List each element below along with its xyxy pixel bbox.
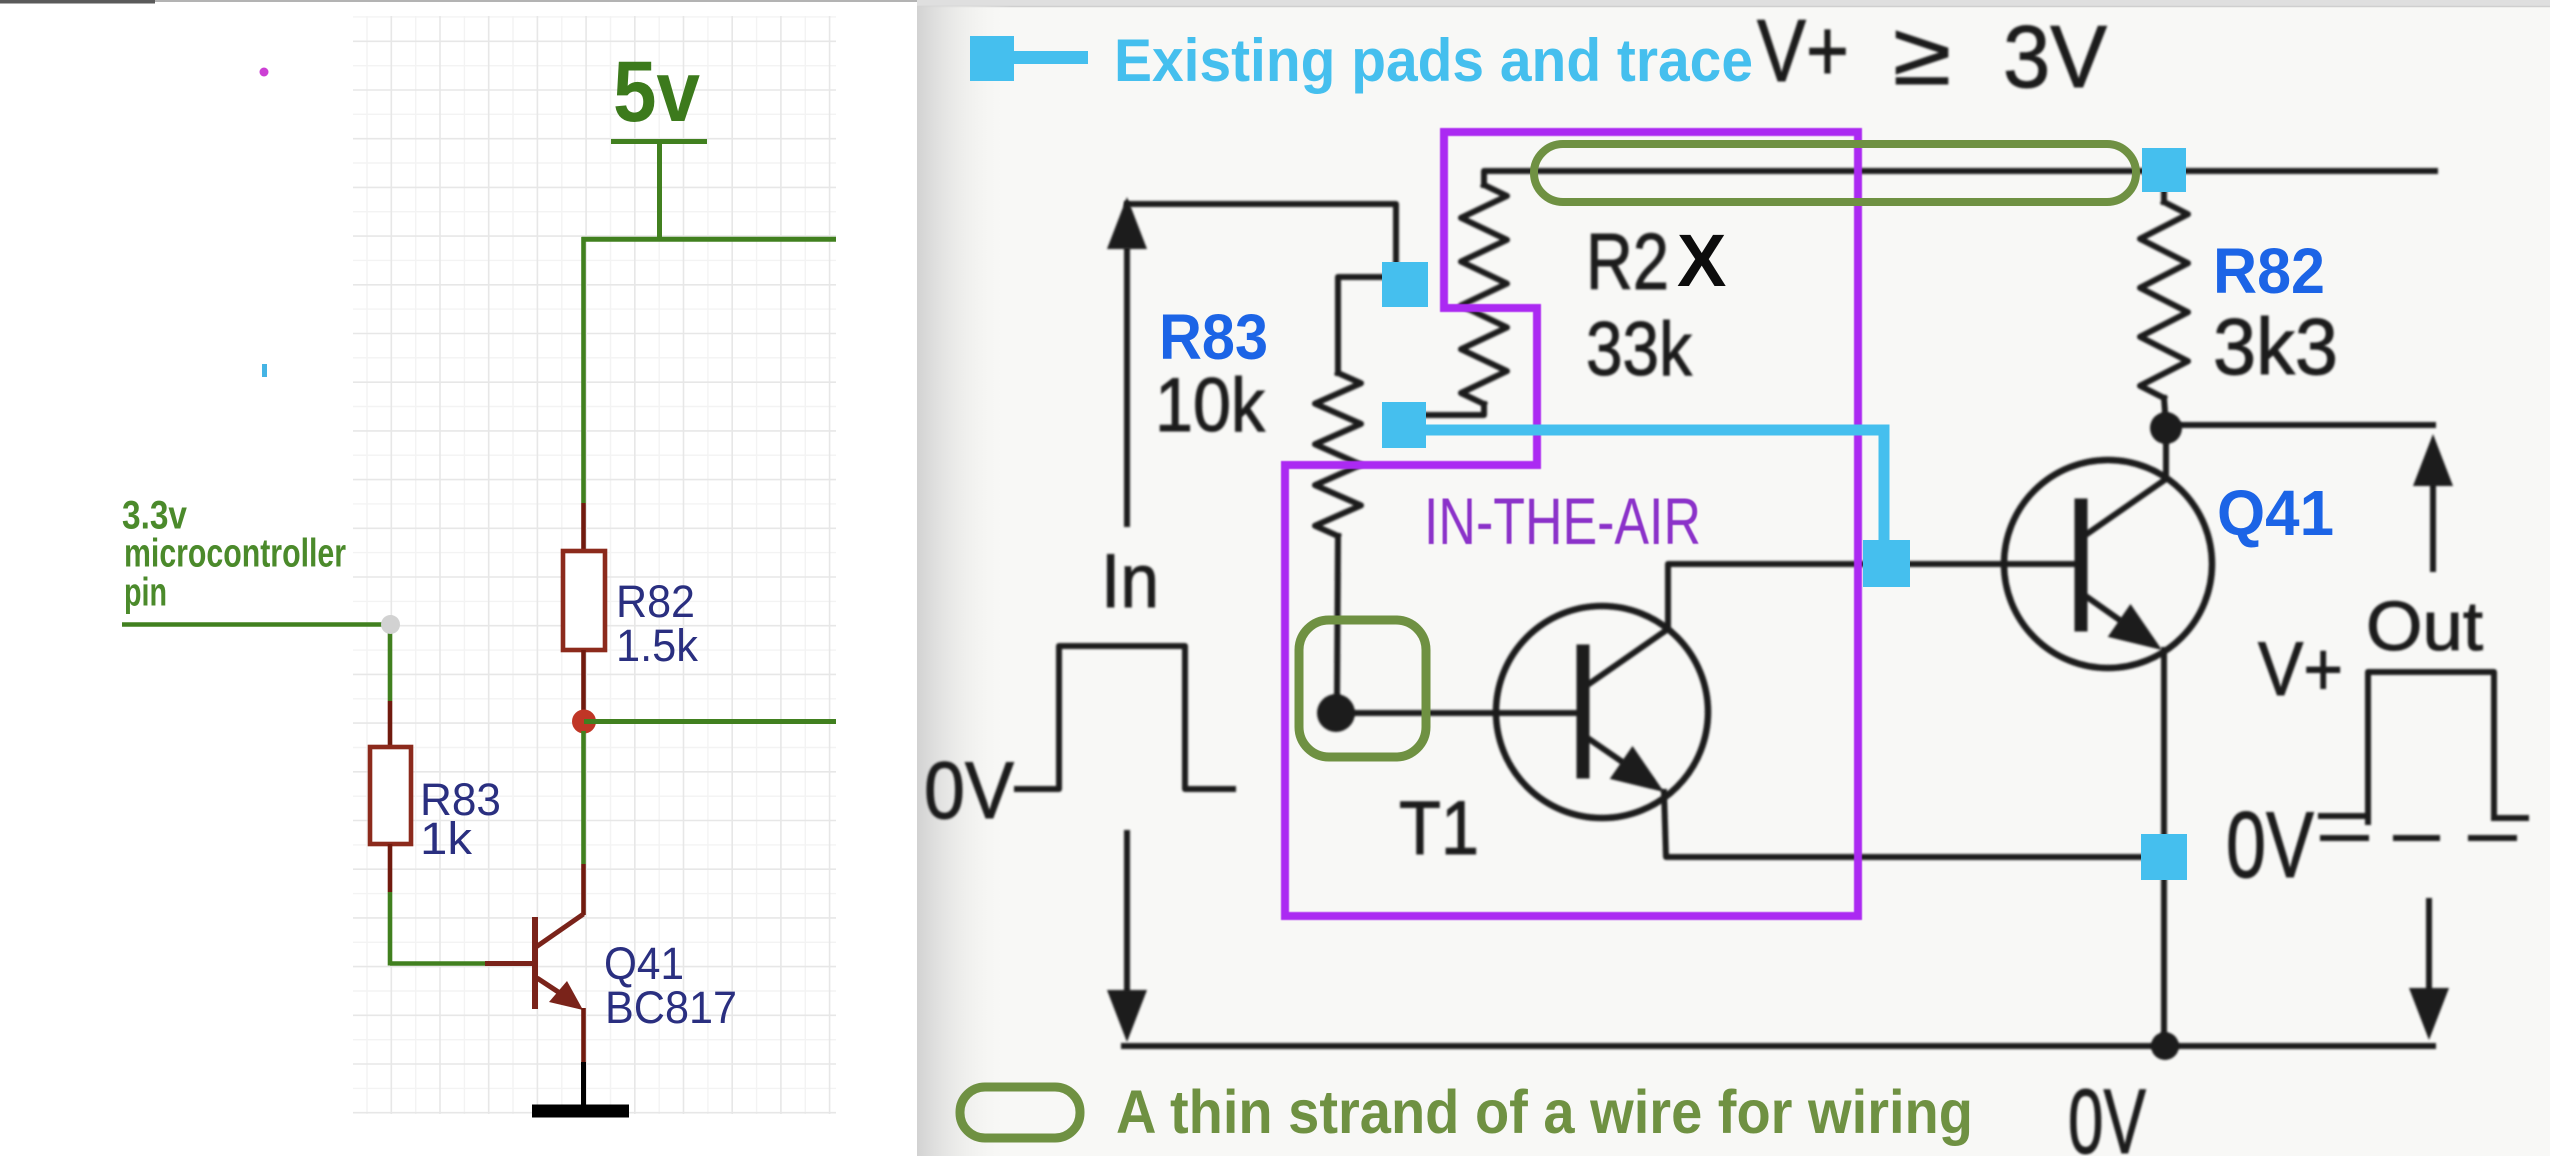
Out waveform: [2368, 672, 2494, 822]
svg-text:V+: V+: [1757, 1, 1849, 100]
wire In top to pad1: [1127, 204, 1396, 264]
pad 5 (Q41 emitter): [2141, 834, 2187, 880]
capsule around top wire: [1534, 144, 2136, 202]
transistor T1 collector: [1589, 564, 2075, 684]
legend trace line: [1014, 51, 1088, 64]
wire 3.3v pin horizontal: [122, 622, 382, 627]
pin dot (gray): [381, 615, 400, 634]
svg-text:1.5k: 1.5k: [616, 620, 698, 671]
wire pad1 left link: [1338, 277, 1384, 373]
wire above R83 (red): [388, 701, 393, 749]
arrowhead out down: [2409, 988, 2449, 1040]
junction dot 0V rail: [2151, 1032, 2179, 1060]
wire R82 bottom: [581, 650, 586, 712]
arrowhead In down: [1107, 990, 1147, 1042]
in-the-air outline: [1285, 132, 1858, 916]
capsule legend: [960, 1087, 1080, 1138]
artifact magenta dot: [260, 68, 269, 77]
svg-text:R2: R2: [1586, 217, 1669, 306]
svg-text:X: X: [1677, 219, 1726, 302]
wire 5v horizontal rail: [582, 237, 837, 242]
resistor R83 zigzag (10k): [1315, 373, 1361, 536]
svg-text:10k: 10k: [1155, 363, 1266, 448]
ground bar: [532, 1105, 629, 1118]
wire base node to T1: [1348, 710, 1577, 716]
svg-text:microcontroller: microcontroller: [124, 532, 346, 576]
capsule around T1 base node: [1299, 620, 1426, 757]
In waveform: [1017, 646, 1233, 789]
wire base (green): [390, 961, 485, 966]
svg-text:33k: 33k: [1586, 307, 1693, 392]
transistor Q41 emitter arrow: [549, 981, 583, 1010]
arrowhead T1 emitter: [1610, 746, 1664, 792]
transistor Q41 collector: [2087, 443, 2166, 534]
pad 2 (R83 bottom): [1382, 402, 1426, 448]
wire emitter down (red): [581, 1008, 586, 1062]
top V+ wire: [1484, 171, 2435, 185]
node In arrow line (top): [1124, 250, 1130, 524]
transistor T1 emitter: [1589, 739, 1650, 781]
wire node down (red to collector): [581, 864, 586, 915]
transistor Q41 emitter diagonal: [2087, 597, 2148, 640]
svg-text:pin: pin: [124, 571, 167, 615]
existing trace polyline: [1426, 430, 1884, 545]
arrowhead In up: [1107, 197, 1147, 249]
wire R82 top lead: [2161, 190, 2167, 202]
svg-text:V+: V+: [2258, 627, 2343, 712]
wire Q41 emitter down: [2161, 650, 2167, 1042]
svg-text:BC817: BC817: [605, 982, 737, 1033]
svg-text:0V: 0V: [924, 746, 1014, 836]
wire R2X bottom lead to pad2: [1426, 404, 1484, 415]
5v power bar: [611, 139, 707, 144]
junction dot Q41 collector: [2150, 412, 2182, 444]
svg-text:1k: 1k: [420, 813, 473, 864]
junction dot (red): [572, 710, 596, 734]
svg-text:3k3: 3k3: [2213, 302, 2338, 391]
grid: [353, 16, 836, 1114]
resistor R82 body: [563, 551, 605, 650]
transistor Q41 base bar: [2075, 505, 2088, 625]
svg-text:0V: 0V: [2226, 792, 2314, 897]
wire down to R82 (green part): [581, 237, 586, 503]
scanned texts: [924, 1, 2483, 1156]
transistor T1 circle: [1496, 606, 1708, 818]
svg-text:0V: 0V: [2068, 1071, 2146, 1156]
svg-text:5v: 5v: [613, 44, 700, 140]
svg-text:Q41: Q41: [2217, 477, 2334, 549]
wire base (red): [485, 961, 532, 966]
svg-text:Out: Out: [2366, 587, 2483, 665]
ground stem: [581, 1062, 586, 1106]
svg-text:Existing pads and trace: Existing pads and trace: [1114, 27, 1753, 94]
transistor Q41 collector diagonal: [536, 914, 584, 947]
svg-text:≥: ≥: [1893, 4, 1951, 103]
0V rail: [1124, 1043, 2433, 1049]
resistor R83 body: [370, 747, 411, 844]
svg-text:In: In: [1101, 539, 1159, 624]
transistor T1 base bar: [1577, 651, 1590, 772]
arrowhead out up: [2413, 434, 2453, 486]
out up arrow line: [2430, 458, 2436, 569]
pad 1 (R83 top): [1382, 262, 1428, 307]
wire R83 to T1 base node: [1337, 536, 1338, 700]
wire below R83 (red): [388, 844, 393, 892]
junction dot T1 base: [1317, 694, 1355, 732]
out down arrow line: [2426, 901, 2432, 996]
svg-text:3V: 3V: [2003, 7, 2107, 106]
node In arrow line (bottom): [1124, 833, 1130, 1000]
svg-text:R82: R82: [2213, 235, 2325, 307]
svg-text:R83: R83: [1159, 301, 1268, 373]
pad 3 (top wire): [2142, 148, 2186, 192]
resistor R2X zigzag (33k): [1461, 185, 1507, 404]
wire below R83 (green): [388, 892, 393, 966]
transistor Q41 emitter diagonal: [537, 978, 575, 1003]
arrowhead Q41 emitter: [2108, 604, 2162, 650]
pad 4 (Q41 base): [1863, 540, 1910, 587]
wire junction to out arrow: [2166, 422, 2433, 428]
wire above R83 (green): [388, 629, 393, 701]
wire node to right: [584, 719, 836, 724]
svg-text:A thin strand of a wire for wi: A thin strand of a wire for wiring: [1116, 1078, 1973, 1146]
svg-text:IN-THE-AIR: IN-THE-AIR: [1424, 484, 1701, 558]
wire down to R82 (red part): [581, 503, 586, 553]
transistor Q41 base bar: [532, 917, 538, 1009]
wire power stub: [657, 142, 662, 240]
svg-text:T1: T1: [1399, 786, 1479, 871]
top border line: [0, 0, 917, 2]
transistor Q41 circle: [2004, 460, 2212, 668]
artifact blue tick: [262, 364, 267, 377]
0V dashes: [2321, 813, 2366, 819]
wire node down (green): [581, 731, 586, 864]
resistor R82 zigzag (3k3): [2140, 202, 2188, 398]
legend pad square: [970, 36, 1014, 81]
